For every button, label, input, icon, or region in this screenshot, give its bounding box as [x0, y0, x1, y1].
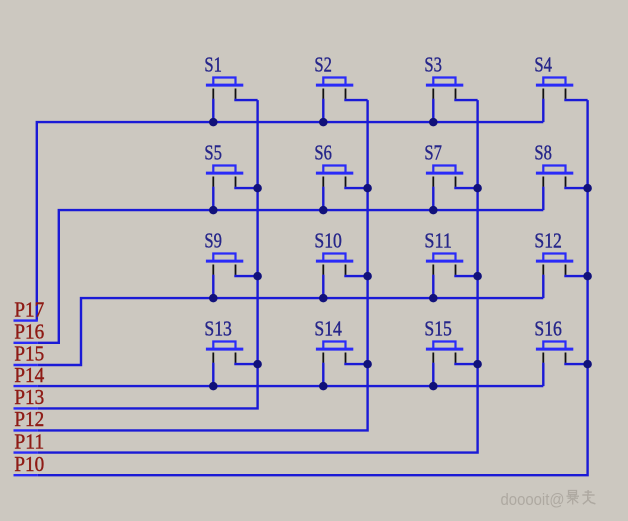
push button S11 — [426, 254, 463, 275]
junction row 2 at S6 left pin — [319, 206, 328, 215]
wire S6 right pin to column 2 — [346, 187, 368, 188]
push button S1 — [206, 78, 243, 99]
wire S9 right pin to column 1 — [236, 275, 258, 276]
svg-text:P14: P14 — [14, 363, 44, 387]
push button S13 — [206, 342, 243, 363]
junction column 1 at S13 branch — [253, 360, 262, 369]
port terminal P12 — [14, 407, 45, 431]
svg-text:S7: S7 — [424, 141, 442, 165]
junction column 1 at S9 branch — [253, 272, 262, 281]
svg-text:P12: P12 — [14, 407, 44, 431]
wire net row 4 (P14 to S13-S16 left pins) — [38, 385, 544, 387]
wire S14 right pin to column 2 — [346, 363, 368, 364]
wire S3 right pin to column 3 — [456, 99, 478, 100]
wire S6 left pin to row 2 — [322, 187, 324, 210]
junction column 2 at S6 branch — [363, 184, 372, 193]
svg-text:S13: S13 — [204, 317, 232, 341]
wire S1 left pin to row 1 — [212, 99, 214, 122]
svg-text:P10: P10 — [14, 452, 44, 476]
wire S4 right pin to column 4 — [566, 99, 588, 100]
push button S10 — [316, 254, 353, 275]
junction column 3 at S7 branch — [473, 184, 482, 193]
wire net column 1 (P13 to S1/S5/S9/S13 right pins) — [38, 100, 258, 408]
junction row 4 at S13 left pin — [209, 382, 218, 391]
port terminal P14 — [14, 363, 45, 387]
wire S8 right pin to column 4 — [566, 187, 588, 188]
push button S6 — [316, 166, 353, 187]
junction row 2 at S7 left pin — [429, 206, 438, 215]
svg-text:S4: S4 — [534, 53, 552, 77]
junction column 1 at S5 branch — [253, 184, 262, 193]
wire S8 left pin to row 2 — [542, 187, 544, 210]
push button S4 — [536, 78, 573, 99]
port terminal P17 — [14, 297, 45, 321]
wire S4 left pin to row 1 — [542, 99, 544, 122]
wire S5 left pin to row 2 — [212, 187, 214, 210]
junction row 3 at S10 left pin — [319, 294, 328, 303]
push button S5 — [206, 166, 243, 187]
junction row 4 at S15 left pin — [429, 382, 438, 391]
svg-text:S15: S15 — [424, 317, 452, 341]
junction column 2 at S10 branch — [363, 272, 372, 281]
wire S7 right pin to column 3 — [456, 187, 478, 188]
svg-text:S12: S12 — [534, 229, 562, 253]
wire S11 right pin to column 3 — [456, 275, 478, 276]
wire S11 left pin to row 3 — [432, 275, 434, 298]
wire S3 left pin to row 1 — [432, 99, 434, 122]
wire S13 left pin to row 4 — [212, 363, 214, 386]
junction row 3 at S11 left pin — [429, 294, 438, 303]
junction column 2 at S14 branch — [363, 360, 372, 369]
wire S10 left pin to row 3 — [322, 275, 324, 298]
wire net column 4 (P10 to S4/S8/S12/S16 right pins) — [38, 100, 588, 475]
wire net row 2 (P16 to S5-S8 left pins) — [38, 210, 544, 343]
svg-text:S9: S9 — [204, 229, 222, 253]
wire S10 right pin to column 2 — [346, 275, 368, 276]
port terminal P15 — [14, 342, 45, 366]
junction column 4 at S8 branch — [583, 184, 592, 193]
wire S7 left pin to row 2 — [432, 187, 434, 210]
watermark dooooit@暴走 — [501, 490, 596, 509]
port terminal P13 — [14, 385, 45, 409]
wire net row 3 (P15 to S9-S12 left pins) — [38, 298, 544, 365]
port terminal P16 — [14, 320, 45, 344]
svg-text:P13: P13 — [14, 385, 44, 409]
wire net column 2 (P12 to S2/S6/S10/S14 right pins) — [38, 100, 368, 430]
svg-text:S16: S16 — [534, 317, 562, 341]
junction row 1 at S1 left pin — [209, 118, 218, 127]
svg-text:S6: S6 — [314, 141, 332, 165]
svg-text:P17: P17 — [14, 297, 44, 321]
push button S2 — [316, 78, 353, 99]
wire S2 right pin to column 2 — [346, 99, 368, 100]
svg-text:S2: S2 — [314, 53, 332, 77]
wire net column 3 (P11 to S3/S7/S11/S15 right pins) — [38, 100, 478, 453]
wire S16 left pin to row 4 — [542, 363, 544, 386]
svg-text:S3: S3 — [424, 53, 442, 77]
svg-text:S10: S10 — [314, 229, 342, 253]
svg-text:S5: S5 — [204, 141, 222, 165]
push button S8 — [536, 166, 573, 187]
push button S7 — [426, 166, 463, 187]
push button S12 — [536, 254, 573, 275]
svg-text:S8: S8 — [534, 141, 552, 165]
wire S9 left pin to row 3 — [212, 275, 214, 298]
wire S12 right pin to column 4 — [566, 275, 588, 276]
port terminal P11 — [14, 429, 45, 453]
junction column 3 at S11 branch — [473, 272, 482, 281]
junction row 1 at S3 left pin — [429, 118, 438, 127]
wire S1 right pin to column 1 — [236, 99, 258, 100]
push button S14 — [316, 342, 353, 363]
svg-text:P16: P16 — [14, 320, 44, 344]
svg-text:P11: P11 — [14, 429, 44, 453]
junction row 2 at S5 left pin — [209, 206, 218, 215]
wire S14 left pin to row 4 — [322, 363, 324, 386]
wire S16 right pin to column 4 — [566, 363, 588, 364]
junction column 4 at S16 branch — [583, 360, 592, 369]
wire S12 left pin to row 3 — [542, 275, 544, 298]
junction row 4 at S14 left pin — [319, 382, 328, 391]
wire S5 right pin to column 1 — [236, 187, 258, 188]
svg-text:S11: S11 — [424, 229, 452, 253]
wire S15 right pin to column 3 — [456, 363, 478, 364]
wire net row 1 (P17 to S1-S4 left pins) — [37, 122, 544, 321]
push button S9 — [206, 254, 243, 275]
junction column 4 at S12 branch — [583, 272, 592, 281]
push button S15 — [426, 342, 463, 363]
junction column 3 at S15 branch — [473, 360, 482, 369]
wire S15 left pin to row 4 — [432, 363, 434, 386]
svg-text:S1: S1 — [204, 53, 222, 77]
push button S3 — [426, 78, 463, 99]
junction row 1 at S2 left pin — [319, 118, 328, 127]
svg-text:S14: S14 — [314, 317, 342, 341]
wire S13 right pin to column 1 — [236, 363, 258, 364]
svg-text:dooooit@: dooooit@ — [501, 490, 565, 509]
wire S2 left pin to row 1 — [322, 99, 324, 122]
push button S16 — [536, 342, 573, 363]
junction row 3 at S9 left pin — [209, 294, 218, 303]
port terminal P10 — [14, 452, 45, 476]
